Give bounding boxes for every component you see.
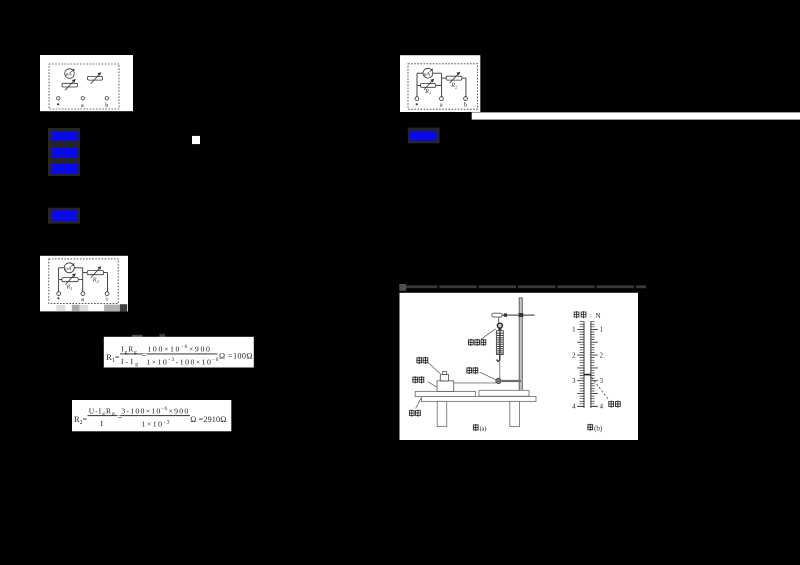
pointer [584,374,592,376]
rod clamp [519,313,524,317]
wire R1 right [436,84,442,86]
stand rod [519,298,522,391]
wire R2 right [104,272,108,274]
gray smudge 1 above formula [132,335,143,339]
clamp bar [502,314,535,316]
svg-text:2: 2 [572,352,576,359]
rheostat right (box A) [88,72,103,84]
svg-text:1×10-3-100×10-6: 1×10-3-100×10-6 [146,357,218,366]
pointer line weight label [428,362,441,374]
svg-text:R2: R2 [92,278,100,285]
spring scale hook [497,355,500,362]
terminal a (box B) [440,97,444,101]
white strip right [472,112,800,119]
svg-text:3: 3 [572,378,576,385]
table right leg [510,401,520,426]
pulley [496,378,501,383]
scale left rail [583,321,585,408]
figure white background [400,293,639,440]
stand base plate [479,390,529,396]
svg-text:b: b [464,102,467,109]
wire to R2 [442,77,447,79]
terminal dot (box A) [57,97,60,100]
formula 2 box: R2 = (U-IgRg)/I = 2910 ohm [72,400,231,431]
svg-text:1: 1 [572,327,575,334]
blue text row 1 [52,132,79,141]
svg-text:μA: μA [424,72,431,78]
figure image top-left corner mark [399,284,406,291]
label tanhuangcheng (spring scale) [468,339,486,346]
wire right vertical [465,78,467,97]
svg-text:(b): (b) [594,424,603,432]
wire right vertical [107,273,109,292]
svg-text:a: a [440,102,443,109]
pointer line block label [428,382,437,388]
spring scale body [496,331,503,355]
dashed border box A [49,64,119,109]
wire top left [59,267,65,269]
caption fig(a) [473,424,487,433]
wire left vertical [58,268,60,292]
blue text row 3 [52,164,79,174]
label hualun (pulley) [466,367,478,374]
terminal a (box C) [81,292,85,296]
table left leg [437,401,447,426]
svg-text:a: a [81,103,84,109]
svg-text:a: a [81,296,84,303]
svg-text:(a): (a) [480,426,487,433]
label zhizhen (pointer) [608,401,620,408]
rheostat R1 (box C) [62,273,78,284]
wire R1 left [417,84,421,86]
wire top right [433,72,442,74]
wire middle vertical [441,73,443,97]
pointer line board label [416,398,421,408]
svg-text:Ω =2910Ω: Ω =2910Ω [190,415,226,424]
weight knob [443,371,447,374]
weight body [440,374,448,381]
string block to pulley [454,382,496,384]
clamp bolt [504,313,507,316]
white answer square [192,136,200,144]
dashed border box B [408,64,478,109]
long ticks [577,329,598,406]
svg-text:R2: R2 [450,83,458,90]
blue text row [410,131,437,141]
wooden block [437,381,454,392]
label fama (weight) [416,357,428,364]
highlight block 2 (left) [48,208,80,224]
blue text row 2 [52,148,78,158]
hanger link [498,317,500,323]
figure box A: component box (question) [40,55,133,111]
formula 1 box: R1 = IgRg/(I-Ig) = 100 ohm [104,337,254,368]
label dot (box B) [416,103,418,105]
rheostat R2 (box B) [446,72,462,84]
wire R1 right [78,279,83,281]
svg-text:b: b [105,103,108,109]
fraction bar 2 [146,353,217,356]
highlight block 3 (right) [408,128,440,144]
table top [422,397,537,402]
label mukuai (block) [412,376,424,383]
wire left vertical [416,73,418,97]
scale right rail [590,321,592,408]
svg-text:3-100×10-6×900: 3-100×10-6×900 [121,406,188,415]
gray residue blocks bottom strip [56,305,65,311]
figure image top edge line [400,285,646,288]
dashed pointer callout [592,378,609,400]
figure box B: answer circuit (top right) [400,55,480,112]
numbers left [572,327,576,411]
pulley arm [499,380,522,382]
terminal dot (box B) [415,97,419,101]
fraction bar 2 [121,414,191,417]
highlight block 1 (left) [48,128,80,176]
clamp bar left cap [492,313,503,317]
svg-text::: : [589,312,591,319]
minor ticks [580,322,595,404]
spring scale top ring [497,323,502,328]
label muban (board) [409,410,421,417]
wooden plank [415,391,475,396]
svg-text:1: 1 [600,327,603,334]
numbers right [600,327,604,411]
label danwei : N (unit) [574,311,602,320]
fraction bar 1 [88,414,118,417]
svg-text:R1: R1 [424,89,431,96]
dashed border box C [49,259,118,304]
caption fig(b) [587,424,603,433]
terminal b (box C) [105,292,109,296]
svg-text:4: 4 [572,404,576,411]
fraction bar 1 [120,353,143,356]
terminal b (box B) [464,97,468,101]
svg-text:N: N [595,312,601,320]
svg-text:μA: μA [66,72,73,78]
string hook to pulley [499,362,501,378]
wire middle vertical [82,268,84,292]
svg-text:2: 2 [600,352,604,359]
rheostat left (box A) [62,79,78,90]
wire top left [417,72,423,74]
svg-text:100×10-6×900: 100×10-6×900 [147,344,210,353]
galvanometer uA (box A) [65,69,75,79]
blue text row [52,210,78,221]
svg-text:4: 4 [600,404,604,411]
wire top right [74,267,82,269]
wire R2 right [462,77,466,79]
svg-text:μA: μA [65,266,72,272]
rheostat R1 (box B) [421,79,436,90]
svg-text:R1: R1 [66,284,73,291]
rheostat R2 (box C) [87,266,103,278]
svg-text:Ω =100Ω: Ω =100Ω [219,352,253,361]
wire to R2 [83,272,88,274]
wire R1 left [59,279,62,281]
label dot [57,103,59,105]
galvanometer uA (box B) [423,68,433,78]
svg-text:3: 3 [600,378,604,385]
terminal a (box A) [81,97,84,100]
terminal dot (box C) [57,292,61,296]
label dot (box C) [57,297,59,299]
svg-text:b: b [105,296,108,303]
galvanometer uA (box C) [64,263,74,273]
figure box C: answer circuit (left, repeated) [40,256,128,312]
gray smudge 2 above formula [159,334,165,338]
pointer line pulley label [480,372,496,380]
pointer line spring scale label [481,329,496,339]
terminal b (box A) [105,97,108,100]
